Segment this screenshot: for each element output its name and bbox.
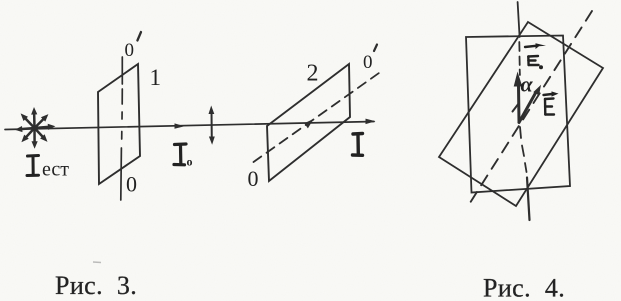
- polarizer P2 plate: [267, 64, 350, 181]
- svg-text:α: α: [521, 72, 534, 97]
- node S: natural light source star: [15, 107, 56, 149]
- P1 transmission axis 0-0': [121, 57, 123, 200]
- label Iест source intensity: [27, 156, 39, 176]
- vertical axis line of upright polarizer: [518, 2, 530, 220]
- polarizer P1 plate: [98, 64, 140, 184]
- vector E0: [517, 86, 521, 122]
- svg-text:o: o: [187, 155, 193, 169]
- vector E: [519, 93, 536, 123]
- svg-text:2: 2: [307, 61, 319, 87]
- svg-text:0: 0: [125, 40, 135, 61]
- tilted axis dashed line: [468, 11, 592, 206]
- beam arrow end: [366, 119, 376, 125]
- label E0 with vector arrow: [525, 43, 546, 69]
- angle alpha tick: [513, 103, 520, 112]
- svg-text:1: 1: [150, 65, 162, 90]
- svg-text:0: 0: [126, 172, 137, 197]
- I0 polarization double arrow: [209, 106, 215, 145]
- label I final intensity: [353, 134, 363, 156]
- label E with vector arrow: [544, 91, 559, 114]
- svg-text:ест: ест: [42, 159, 69, 181]
- polarizer frame upright: [466, 36, 570, 193]
- P2 axis arrowhead: [304, 119, 313, 128]
- svg-text:Рис. 4.: Рис. 4.: [483, 274, 565, 301]
- svg-text:Рис. 3.: Рис. 3.: [55, 271, 137, 300]
- polarizer frame tilted: [439, 22, 603, 206]
- label 0' of P1: [125, 32, 142, 61]
- P2 transmission axis 0-0' dashed: [254, 71, 383, 163]
- speck: [93, 261, 101, 264]
- svg-text:0: 0: [248, 166, 259, 191]
- svg-text:0: 0: [363, 52, 373, 73]
- label I0 intensity after P1: [174, 144, 186, 165]
- beam arrow mid: [175, 123, 185, 128]
- wire beam axis: [5, 122, 374, 130]
